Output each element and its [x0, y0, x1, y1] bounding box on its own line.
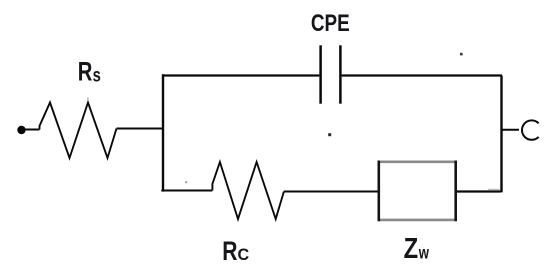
- svg-text:CPE: CPE: [311, 9, 350, 37]
- svg-text:R: R: [222, 237, 237, 267]
- svg-text:s: s: [93, 65, 101, 86]
- svg-text:Z: Z: [404, 232, 419, 265]
- svg-text:R: R: [78, 57, 93, 88]
- svg-text:C: C: [238, 245, 250, 264]
- svg-text:w: w: [418, 244, 430, 263]
